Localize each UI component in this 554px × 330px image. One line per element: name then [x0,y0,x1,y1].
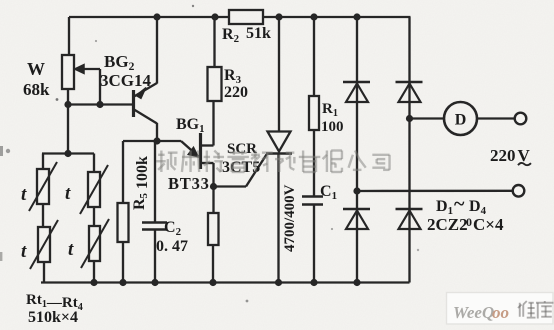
svg-text:D: D [455,112,467,129]
svg-text:~: ~ [454,193,465,215]
svg-text:WeeQ: WeeQ [453,303,494,322]
svg-text:t: t [21,241,27,262]
svg-text:W: W [27,59,45,79]
svg-text:100: 100 [321,119,344,135]
svg-text:t: t [21,184,27,205]
svg-text:0. 47: 0. 47 [156,238,188,255]
svg-text:t: t [65,183,71,204]
svg-text:t: t [68,239,74,260]
svg-text:220: 220 [490,146,516,165]
svg-text:BT33: BT33 [168,174,210,193]
svg-text:51k: 51k [246,25,271,42]
svg-text:C×4: C×4 [473,215,504,234]
svg-text:0: 0 [466,215,472,229]
svg-text:4700/400V: 4700/400V [282,184,298,252]
svg-text:220: 220 [224,84,248,101]
svg-text:V: V [518,146,531,165]
svg-text:2CZ2: 2CZ2 [427,215,468,234]
svg-text:3CG14: 3CG14 [100,71,152,90]
svg-text:510k×4: 510k×4 [28,309,78,326]
svg-text:68k: 68k [23,80,50,99]
svg-text:oo: oo [492,303,509,322]
